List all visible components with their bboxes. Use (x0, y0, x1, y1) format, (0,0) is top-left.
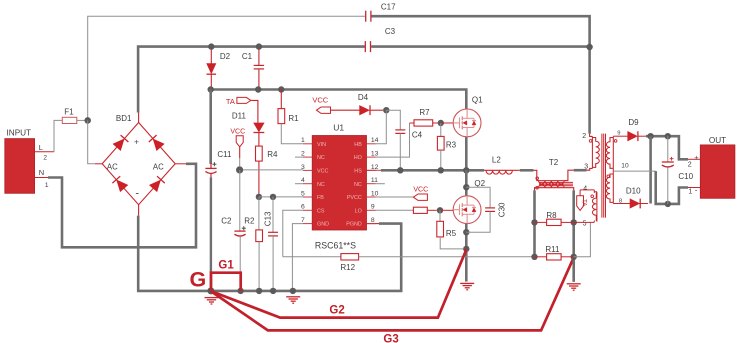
svg-text:R7: R7 (419, 108, 430, 117)
node dot Q1 source (463, 167, 469, 173)
svg-text:R4: R4 (267, 150, 278, 159)
node dot R8 right / pin5 (571, 219, 577, 225)
capacitor C10 (667, 136, 669, 162)
pin L (35, 151, 54, 153)
wire R1 to pin 1 (281, 124, 303, 144)
svg-text:4: 4 (583, 185, 587, 192)
svg-text:NC: NC (317, 182, 325, 188)
svg-text:R3: R3 (446, 140, 457, 149)
svg-text:9: 9 (371, 204, 375, 211)
svg-text:HO: HO (354, 155, 362, 161)
svg-text:R11: R11 (545, 245, 560, 254)
svg-text:3: 3 (301, 164, 305, 171)
node dot C4/HS (397, 167, 403, 173)
resistor R4 (256, 146, 263, 161)
svg-text:CS: CS (317, 208, 325, 214)
wire G1 (red) (211, 273, 241, 291)
svg-text:R2: R2 (244, 216, 255, 225)
wire T2 winding right down (thick) (572, 190, 575, 282)
capacitor C17 (365, 11, 367, 22)
svg-text:2: 2 (688, 161, 692, 168)
svg-text:HB: HB (354, 142, 362, 148)
svg-text:GND: GND (317, 222, 329, 228)
wire pin 8 to D10 (613, 203, 630, 205)
svg-text:4: 4 (301, 177, 305, 184)
svg-text:C17: C17 (381, 3, 396, 12)
pin 13 HO (367, 156, 376, 158)
svg-text:C13: C13 (264, 211, 273, 226)
wire HS rail (thick) (381, 169, 484, 172)
transformer T2 top winding (533, 170, 538, 180)
wire R2 to ground (258, 242, 260, 291)
wire Q2 source to ground symbol (thick) (465, 249, 468, 282)
resistor R3 (437, 136, 444, 150)
svg-text:D2: D2 (220, 52, 231, 61)
wire bridge plus to C3 (thick) (138, 47, 365, 113)
svg-text:5: 5 (301, 190, 305, 197)
node dot ground G (207, 287, 214, 294)
diode D4 (360, 106, 369, 115)
wire gate to R3 (440, 123, 442, 136)
wire pin 9 to D9 (613, 135, 628, 137)
wire R5 to Q2 source node (440, 237, 463, 249)
svg-text:N: N (39, 168, 44, 177)
svg-text:+: + (694, 153, 699, 162)
svg-text:TA: TA (580, 199, 586, 206)
node dot C3/C17 junction (586, 44, 592, 50)
diode D11 (254, 123, 264, 132)
connector OUT (700, 145, 735, 198)
svg-text:T2: T2 (549, 158, 559, 167)
node dot R8 left (531, 219, 537, 225)
wire pin 4 to TA flag (580, 190, 597, 192)
pin 11 NC (367, 183, 376, 185)
svg-text:VCC: VCC (317, 169, 328, 175)
svg-text:G: G (190, 268, 207, 292)
svg-text:C30: C30 (497, 202, 506, 217)
wire VCC flag to node (239, 147, 241, 158)
wire G3 (red) (211, 257, 574, 330)
svg-text:HS: HS (354, 169, 362, 175)
pin 4 NC stub (295, 183, 303, 185)
pin 7 GND (303, 223, 312, 225)
svg-text:1: 1 (45, 182, 49, 189)
pin 12 HS stub (367, 169, 382, 171)
svg-text:U1: U1 (333, 122, 344, 132)
svg-text:D11: D11 (232, 111, 247, 120)
wire C30 top loop (466, 187, 490, 208)
wire D10 to plus rail (thick riser) (640, 203, 648, 205)
svg-text:FB: FB (317, 195, 324, 201)
fuse F1 (62, 117, 77, 123)
wire node to C4 (386, 110, 400, 130)
svg-text:VCC: VCC (312, 95, 328, 104)
svg-text:F1: F1 (64, 108, 74, 117)
wire VCC flag to D4 (331, 109, 360, 111)
wire gate to R5 (439, 210, 441, 221)
wire pin 13 to R7 (376, 123, 410, 157)
wire FB node to pin 5 (259, 196, 303, 198)
node dot R11 left (531, 254, 537, 260)
node dot VCC/C2/pin3 (236, 166, 243, 173)
transistor Q2 (453, 196, 481, 224)
pin 6 CS (303, 209, 312, 211)
node dot C30 top (463, 184, 469, 190)
ground symbol Q2 (460, 282, 474, 284)
wire pin 6 CS down (283, 210, 303, 256)
wire R4 to FB node (258, 161, 260, 197)
wire node down to bridge AC left (88, 120, 95, 163)
svg-text:VCC: VCC (413, 187, 428, 194)
connector INPUT (5, 139, 35, 194)
diode D9 (628, 132, 637, 141)
svg-text:C4: C4 (412, 130, 423, 139)
wire C13 to ground (272, 236, 274, 291)
svg-text:BD1: BD1 (116, 114, 132, 123)
pin 5 FB (303, 196, 312, 198)
node dot fuse output (84, 117, 91, 124)
inductor L2 (484, 169, 486, 171)
wire pin 7 GND down (292, 224, 303, 291)
svg-text:D9: D9 (628, 118, 639, 127)
svg-text:R1: R1 (288, 114, 299, 123)
wire pin 10 to VCC flag (376, 196, 414, 198)
node dot R3/HS (438, 167, 444, 173)
bridge rectifier BD1 (102, 123, 175, 205)
svg-text:2: 2 (301, 151, 305, 158)
svg-text:C11: C11 (217, 150, 232, 159)
node dot C2 ground (237, 288, 243, 294)
node dot C10 bottom (665, 201, 671, 207)
transistor Q1 (453, 109, 481, 137)
wire node to pin 3 (243, 169, 303, 171)
resistor R1 (278, 109, 285, 124)
svg-text:2: 2 (582, 133, 586, 140)
transformer T2 bottom winding (539, 187, 565, 189)
node dot R1 top (278, 86, 284, 92)
wire gate to Q1 (441, 122, 453, 124)
wire rail to R1 (280, 90, 282, 109)
pin PGND stub (367, 223, 380, 225)
node dot C1 bottom (255, 86, 261, 92)
IC U1 RSC61**S (312, 136, 366, 231)
svg-text:5: 5 (583, 221, 587, 228)
node dot FB-R2 (256, 194, 262, 200)
svg-text:13: 13 (371, 151, 379, 158)
transformer primary winding pins 2-3 (590, 134, 593, 137)
node dot D2 top (208, 43, 214, 49)
svg-text:12: 12 (371, 164, 379, 171)
wire TA to D11 (251, 100, 258, 122)
svg-text:C2: C2 (221, 216, 232, 225)
wire AC line to C17 (thin top rail) (88, 16, 366, 120)
svg-text:NC: NC (317, 155, 325, 161)
svg-text:G2: G2 (329, 305, 344, 317)
svg-text:D10: D10 (626, 186, 641, 195)
wire pin 5 to node (574, 221, 595, 223)
wire C11 to ground (thick) (210, 177, 212, 291)
wire D4 to node (370, 109, 383, 111)
svg-text:NC: NC (354, 182, 362, 188)
svg-text:2: 2 (43, 155, 47, 162)
node dot Q2 source / G2 (463, 246, 469, 252)
svg-text:R5: R5 (446, 229, 457, 238)
wire C4 to HS rail (399, 133, 401, 170)
capacitor C1 (258, 47, 260, 66)
svg-text:INPUT: INPUT (7, 129, 32, 138)
node dot C30 bottom (463, 229, 469, 235)
svg-text:3: 3 (584, 163, 588, 170)
ground symbol U1 GND (286, 296, 300, 298)
svg-text:1: 1 (301, 137, 305, 144)
wire T2 top winding to pin 3 (thick segment) (564, 170, 574, 180)
bridge diode top-right (153, 139, 164, 150)
wire C3 right to node at x589 (thick) (371, 45, 589, 48)
wire C17 right to primary top (thick) (372, 16, 590, 47)
transformer secondary winding pins 9-10-8 (612, 136, 614, 169)
node dot GND pin ground (290, 288, 296, 294)
transformer core (601, 134, 603, 218)
svg-text:1: 1 (688, 189, 692, 196)
wire fuse to node (77, 119, 85, 121)
wire N to bridge AC right (thick) (48, 164, 196, 248)
node dot Q2 gate (437, 207, 443, 213)
node dot R11 right / G3 (571, 254, 577, 260)
wire HS to Q2 drain (thick) (465, 170, 468, 196)
pin 1 VIN (303, 143, 312, 145)
wire bridge plus lead (138, 113, 140, 123)
wire C2 to ground (239, 236, 241, 291)
ground symbol T2 return (567, 283, 581, 285)
node dot C13 ground (270, 288, 276, 294)
svg-text:7: 7 (301, 217, 305, 224)
pin 10 PVCC (367, 196, 376, 198)
svg-text:14: 14 (371, 137, 379, 144)
capacitor C30 (485, 207, 495, 209)
svg-text:L2: L2 (492, 155, 501, 164)
node dot D4/HB (383, 107, 389, 113)
wire T2 winding left down (thick) (533, 190, 536, 256)
wire rail ext to aux winding (574, 222, 591, 256)
wire D11 to R4 (258, 132, 260, 146)
diode D2 (210, 47, 212, 64)
svg-text:PVCC: PVCC (347, 195, 362, 201)
wire D9 to output plus rail (thick) (637, 135, 646, 137)
transformer T2 core (539, 181, 573, 183)
svg-text:VIN: VIN (317, 142, 326, 148)
transformer aux winding pins 4-5 (596, 192, 598, 222)
svg-text:PGND: PGND (346, 222, 362, 228)
resistor R2 (258, 197, 260, 230)
resistor R7 (410, 122, 415, 124)
wire node down to transformer pin 2 (thick) (588, 47, 591, 134)
capacitor C2 (234, 230, 245, 232)
wire pin 9 to gate resistor (376, 209, 414, 211)
svg-text:R8: R8 (546, 211, 557, 220)
node dot D2 bottom (208, 86, 214, 92)
wire rail to C11 (thick) (209, 90, 212, 164)
wire rectified rail y89 (thick) (211, 90, 467, 110)
svg-text:L: L (39, 143, 43, 152)
svg-text:10: 10 (621, 162, 629, 169)
wire ground rail (thick) (138, 216, 401, 291)
svg-text:11: 11 (371, 177, 378, 184)
bridge diode bottom-left (117, 180, 128, 191)
svg-text:AC: AC (153, 163, 164, 172)
capacitor C3 (364, 41, 366, 52)
resistor on LO line (413, 207, 427, 213)
wire R3 to HS rail (440, 150, 442, 170)
svg-text:C1: C1 (242, 52, 253, 61)
node dot R2 ground (256, 288, 262, 294)
wire R12 to right (359, 256, 535, 258)
resistor R12 (341, 254, 359, 260)
pin 12 HS (367, 169, 376, 171)
svg-text:D4: D4 (358, 93, 369, 102)
svg-text:G3: G3 (383, 334, 398, 343)
node dot D10 riser (647, 133, 653, 139)
svg-text:-: - (695, 185, 698, 194)
wire C30 bottom loop (466, 212, 490, 233)
resistor R8 (535, 221, 547, 223)
ground symbol G (205, 297, 219, 299)
svg-text:Q2: Q2 (474, 179, 485, 188)
wire Q1 source to HS rail (thick) (465, 137, 468, 171)
pin 8 PGND (367, 223, 376, 225)
capacitor C13 (268, 231, 278, 233)
pin 3 VCC (303, 169, 312, 171)
bridge diode bottom-right (150, 180, 161, 191)
node dot Q1 gate (438, 120, 444, 126)
svg-text:LO: LO (355, 208, 362, 214)
pin 2 NC stub (295, 156, 303, 158)
svg-text:VCC: VCC (230, 128, 245, 135)
wire R12 rail (283, 256, 341, 258)
pin 2 NC (303, 156, 312, 158)
wire node to C2 (239, 170, 241, 231)
svg-text:6: 6 (301, 204, 305, 211)
pin 4 NC (303, 183, 312, 185)
resistor R11 (535, 256, 547, 258)
svg-text:OUT: OUT (709, 136, 726, 145)
svg-text:8: 8 (371, 217, 375, 224)
wire gate to Q2 (440, 209, 453, 211)
node dot C10 top (665, 133, 671, 139)
capacitor C4 (395, 129, 405, 131)
svg-text:RSC61**S: RSC61**S (315, 240, 356, 250)
wire Q2 source (thick) (465, 224, 468, 249)
resistor R5 (437, 221, 444, 237)
net flag TA (aux) (579, 190, 581, 196)
wire L2 to T2 (thick segment) (512, 169, 520, 171)
wire bridge minus lead (138, 205, 140, 216)
capacitor C11 (205, 167, 216, 169)
pin 11 NC stub (376, 183, 385, 185)
svg-text:G1: G1 (218, 259, 234, 271)
svg-text:C3: C3 (385, 27, 396, 36)
bridge diode top-left (113, 139, 124, 150)
svg-text:-: - (135, 187, 139, 199)
svg-text:C10: C10 (678, 172, 693, 181)
wire FB to C13 (272, 197, 274, 232)
svg-text:+: + (134, 136, 139, 146)
svg-text:10: 10 (371, 190, 379, 197)
svg-text:Q1: Q1 (472, 95, 483, 104)
node dot C1 top (256, 43, 262, 49)
pin 14 HB (367, 143, 376, 145)
wire G2 (red) (211, 249, 466, 317)
pin N (35, 177, 48, 179)
wire L to fuse (54, 120, 62, 151)
wire center tap pin 10 (thick) (613, 170, 655, 172)
svg-text:R12: R12 (340, 263, 355, 272)
wire node down to pin 14 (376, 110, 387, 144)
pin 9 LO (367, 209, 376, 211)
node dot FB-C13 (270, 194, 276, 200)
svg-text:AC: AC (107, 163, 118, 172)
diode D10 (630, 199, 639, 208)
svg-text:TA: TA (226, 97, 235, 106)
